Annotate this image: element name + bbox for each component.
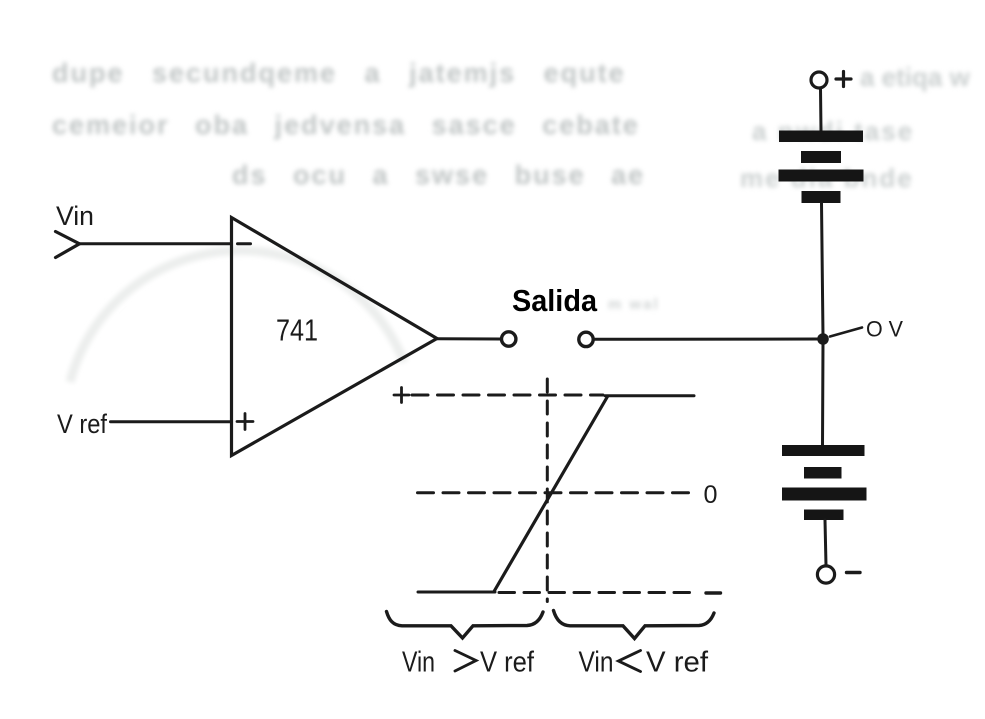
wire 0V node to battery B2: [821, 342, 825, 445]
graph output high solid segment: [605, 394, 694, 397]
graph dashed line 0 level: [418, 491, 695, 494]
op-amp U1 741 triangle: [232, 218, 438, 456]
svg-text:O V: O V: [866, 317, 903, 342]
label Vin > Vref: [402, 647, 535, 679]
leader line to 0V label: [830, 328, 862, 337]
node 0V junction dot: [817, 333, 829, 345]
svg-text:Vin: Vin: [56, 201, 94, 231]
output terminal circle (left): [502, 332, 516, 346]
label - (B2 terminal): [847, 571, 861, 574]
svg-text:Salida: Salida: [512, 283, 598, 318]
wire right output terminal to 0V node: [594, 338, 821, 341]
label Vin < Vref: [579, 647, 709, 679]
graph dashed vertical threshold line: [546, 379, 549, 602]
brace Vin > Vref: [387, 612, 544, 639]
wire battery B1 to 0V node: [822, 203, 824, 336]
graph output low solid segment: [418, 591, 495, 594]
wire Vin to op-amp inverting input: [80, 242, 232, 245]
brace Vin < Vref: [554, 611, 715, 639]
svg-text:Vin: Vin: [579, 647, 614, 679]
wire battery B2 to negative terminal: [825, 520, 826, 566]
battery negative terminal circle: [817, 566, 834, 583]
svg-text:0: 0: [704, 481, 718, 509]
battery B1 (positive supply): [779, 131, 864, 204]
graph transfer ramp: [494, 397, 608, 592]
op-amp non-inverting input plus sign: [237, 414, 253, 430]
input terminal chevron (Vin): [56, 232, 80, 258]
graph dashed line + level: [412, 394, 603, 397]
op-amp inverting input minus sign: [238, 242, 251, 245]
graph label + level: [394, 388, 409, 403]
wire op-amp output to left output terminal: [437, 337, 501, 340]
battery B2 (negative supply): [782, 445, 867, 520]
wire + terminal to battery B1: [819, 89, 823, 132]
svg-text:V ref: V ref: [480, 647, 535, 679]
graph label - level: [706, 591, 721, 594]
output terminal circle (right): [579, 332, 593, 346]
graph dashed line low level: [499, 591, 697, 594]
svg-text:V ref: V ref: [646, 647, 709, 679]
svg-text:Vin: Vin: [402, 647, 435, 679]
label + (B1 terminal): [836, 72, 851, 87]
svg-text:V ref: V ref: [57, 409, 107, 439]
svg-text:741: 741: [276, 313, 318, 348]
battery B1 positive terminal circle: [811, 72, 827, 88]
wire Vref to op-amp non-inverting input: [111, 420, 232, 423]
